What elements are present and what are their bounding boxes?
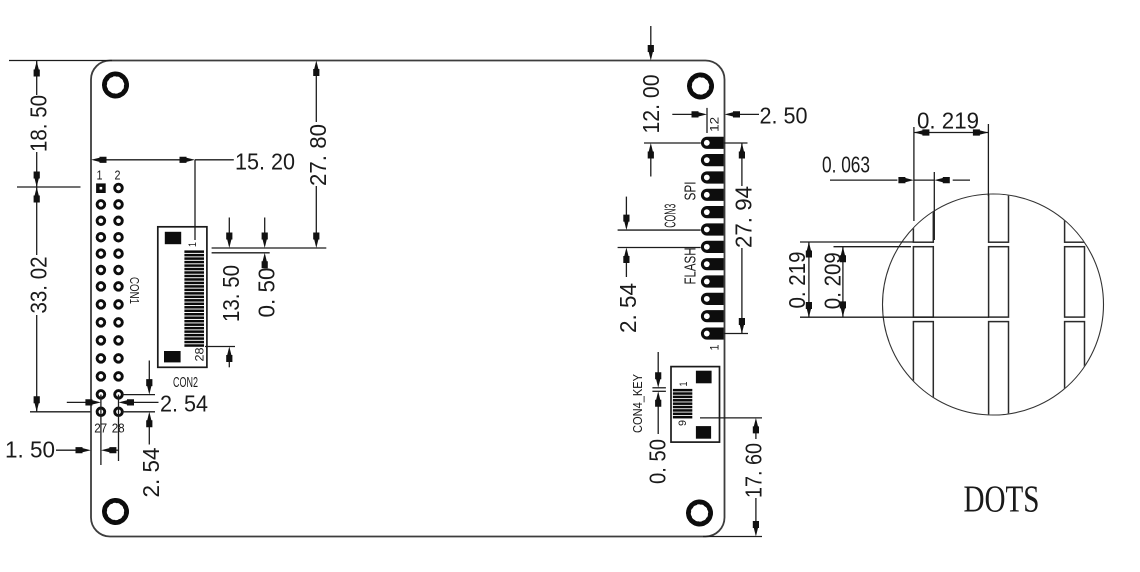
svg-text:27. 80: 27. 80 bbox=[305, 124, 331, 186]
svg-text:2. 54: 2. 54 bbox=[160, 391, 208, 417]
svg-text:CON2: CON2 bbox=[173, 374, 198, 391]
svg-text:1: 1 bbox=[187, 242, 199, 247]
svg-text:13. 50: 13. 50 bbox=[218, 265, 244, 322]
svg-text:0. 063: 0. 063 bbox=[822, 152, 870, 178]
svg-text:1: 1 bbox=[678, 382, 690, 387]
svg-text:DOTS: DOTS bbox=[964, 479, 1040, 521]
svg-text:2. 54: 2. 54 bbox=[138, 447, 164, 497]
svg-text:28: 28 bbox=[193, 347, 207, 361]
svg-text:CON1: CON1 bbox=[127, 277, 142, 304]
svg-text:2. 50: 2. 50 bbox=[760, 103, 808, 129]
svg-text:12. 00: 12. 00 bbox=[638, 75, 664, 134]
svg-text:9: 9 bbox=[677, 420, 689, 426]
svg-text:1: 1 bbox=[708, 344, 722, 350]
svg-text:1: 1 bbox=[97, 168, 103, 183]
svg-text:12: 12 bbox=[708, 117, 722, 132]
svg-text:CON4_KEY: CON4_KEY bbox=[630, 374, 645, 433]
svg-text:FLASH: FLASH bbox=[682, 248, 699, 285]
svg-text:2: 2 bbox=[115, 168, 121, 183]
svg-text:2. 54: 2. 54 bbox=[615, 283, 641, 333]
svg-text:27. 94: 27. 94 bbox=[731, 186, 757, 248]
svg-text:33. 02: 33. 02 bbox=[25, 257, 51, 314]
svg-text:CON3: CON3 bbox=[662, 204, 679, 228]
svg-text:15. 20: 15. 20 bbox=[235, 149, 295, 175]
svg-text:0. 219: 0. 219 bbox=[784, 252, 810, 309]
svg-text:0. 219: 0. 219 bbox=[917, 108, 979, 134]
svg-text:1. 50: 1. 50 bbox=[5, 437, 55, 463]
svg-text:SPI: SPI bbox=[682, 182, 699, 201]
svg-text:0. 209: 0. 209 bbox=[820, 252, 846, 309]
svg-text:0. 50: 0. 50 bbox=[645, 439, 671, 484]
svg-text:17. 60: 17. 60 bbox=[741, 443, 767, 498]
svg-text:0. 50: 0. 50 bbox=[253, 268, 279, 318]
svg-text:18. 50: 18. 50 bbox=[25, 95, 51, 152]
